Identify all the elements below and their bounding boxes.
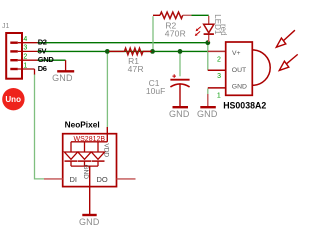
resistor R2 — [153, 12, 192, 18]
LED1 emission arrows — [195, 27, 201, 36]
svg-text:GND: GND — [38, 55, 55, 64]
wire D2 net horizontal — [37, 42, 208, 44]
svg-text:red: red — [219, 24, 228, 36]
wire R2 to LED1 top — [192, 14, 209, 16]
svg-text:D6: D6 — [38, 64, 47, 73]
ground symbol under C1 — [169, 107, 190, 119]
svg-text:47R: 47R — [128, 64, 144, 74]
NeoPixel DI pin stub — [44, 178, 63, 180]
IR receiver U HS0038A2 body — [226, 42, 270, 95]
HS0038A2 pin 2 V+ stub — [208, 50, 226, 52]
svg-text:GND: GND — [169, 109, 190, 119]
NeoPixel internal diode 2 — [78, 142, 91, 166]
svg-text:1: 1 — [23, 62, 27, 69]
svg-text:DI: DI — [70, 175, 78, 184]
svg-text:V+: V+ — [232, 50, 241, 57]
svg-text:3: 3 — [217, 73, 221, 80]
NeoPixel GND pin stub — [89, 166, 91, 214]
resistor R1 — [109, 48, 152, 54]
svg-text:4: 4 — [23, 36, 27, 43]
ground symbol near J1 — [52, 60, 74, 83]
HS0038A2 pin 1 GND stub — [208, 88, 226, 107]
ground symbol under HS0038A2 — [197, 107, 218, 119]
wire HS0038A2 pin1 to GND vertical — [207, 89, 209, 95]
svg-text:2: 2 — [23, 54, 27, 61]
wire 5V to NeoPixel VDD vertical — [106, 53, 108, 128]
connector J1 pin 3 — [10, 50, 37, 52]
NeoPixel body — [63, 134, 117, 187]
IR arrow 2 — [279, 54, 297, 70]
wire 5V net horizontal — [37, 50, 208, 52]
svg-text:GND: GND — [197, 109, 218, 119]
svg-text:1: 1 — [217, 92, 221, 99]
wire 5V node to C1 vertical — [179, 53, 181, 77]
wire LED1 cathode to OUT vertical — [207, 44, 209, 71]
svg-text:Uno: Uno — [5, 95, 21, 104]
connector J1 pin 1 — [10, 69, 34, 75]
NeoPixel internal diode 3 — [91, 142, 104, 166]
ground symbol under NeoPixel — [79, 215, 100, 227]
svg-text:470R: 470R — [165, 28, 186, 38]
LED LED1 — [204, 16, 214, 42]
NeoPixel internal diode 1 — [64, 142, 77, 166]
connector J1 pin 2 — [10, 59, 37, 61]
svg-text:10uF: 10uF — [146, 86, 165, 96]
svg-text:5V: 5V — [38, 46, 47, 55]
svg-text:GND: GND — [82, 165, 89, 180]
NeoPixel internal top rail — [71, 141, 107, 143]
svg-text:GND: GND — [52, 73, 73, 83]
NeoPixel internal bottom rail — [71, 165, 98, 167]
svg-text:D2: D2 — [38, 37, 47, 46]
Uno badge — [2, 88, 24, 110]
junction node dot 5V/VDD — [105, 49, 110, 54]
svg-text:GND: GND — [232, 84, 247, 91]
svg-text:VDD: VDD — [102, 143, 109, 157]
wire D6 vertical to NeoPixel DI — [35, 74, 45, 179]
svg-text:GND: GND — [79, 217, 100, 227]
junction node dot 5V/R2 — [150, 49, 155, 54]
svg-text:HS0038A2: HS0038A2 — [223, 100, 266, 110]
connector J1 body — [6, 33, 22, 79]
svg-text:OUT: OUT — [232, 67, 246, 74]
connector J1 pin 4 — [10, 42, 37, 44]
wire 5V node to R2 vertical — [152, 16, 154, 50]
IR arrow 1 — [276, 30, 295, 47]
svg-text:3: 3 — [23, 45, 27, 52]
junction node dot D2/LED1 — [205, 40, 210, 45]
HS0038A2 pin 3 OUT stub — [208, 69, 226, 71]
svg-text:2: 2 — [217, 57, 221, 64]
junction node dot 5V/C1 — [178, 49, 183, 54]
NeoPixel VDD pin stub — [106, 127, 108, 142]
svg-text:NeoPixel: NeoPixel — [65, 120, 100, 130]
NeoPixel DO pin stub — [117, 178, 136, 180]
wire GND net horizontal — [37, 59, 66, 61]
svg-text:DO: DO — [97, 175, 108, 184]
svg-text:J1: J1 — [2, 23, 10, 30]
capacitor C1 — [170, 74, 189, 106]
